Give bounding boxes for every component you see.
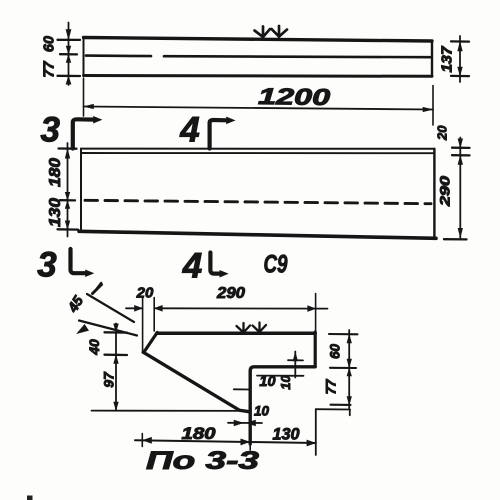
arrow 290 bottom [458,228,463,237]
dim line 1200 [84,107,434,110]
arrow 77 top [347,368,352,376]
tick at hook end [349,410,351,416]
tick 180 top [59,147,77,149]
svg-text:4: 4 [179,111,199,150]
ext line 20 left [142,298,144,353]
svg-text:97: 97 [101,371,117,388]
ext line 1200 right [432,86,434,126]
dim 20 left arrow [135,305,143,311]
tick 130 bottom [58,228,79,231]
tick 40 bottom [105,354,128,357]
cut mark 3 top [73,119,96,148]
small tick line mid [234,388,250,390]
hook leader line [79,321,137,336]
svg-text:10: 10 [278,375,293,390]
tick 60 bottom [330,367,356,369]
step dim arrow up [293,353,298,361]
arrow 97 top [114,355,119,363]
ext line 20 right [153,298,155,332]
dim line 290 section [154,307,327,309]
tick 20 bottom [452,154,470,156]
svg-text:20: 20 [435,125,450,141]
rect left edge [80,149,82,231]
svg-text:60: 60 [42,36,58,52]
svg-text:77: 77 [42,61,58,78]
step dim vline 10 [294,352,296,378]
ext line 1200 left [83,78,85,116]
ext line 290 right [315,294,317,332]
svg-text:4: 4 [182,247,202,286]
rect top line outer [81,148,434,150]
right dim line 137 [459,36,461,82]
arrow 180 left [143,437,152,443]
ext tick 180 left [141,434,143,447]
bar top edge [84,38,433,42]
svg-text:3: 3 [37,246,57,285]
bar top line [157,331,315,335]
arrow 130 right [307,440,316,446]
svg-text:По 3-3: По 3-3 [146,447,259,475]
svg-text:137: 137 [439,46,456,73]
rect top line inner [81,152,434,154]
star mark 1 section [237,323,251,333]
dim 20 left arrow line [126,307,143,309]
small dim 10 bottom arrow right [247,420,256,426]
ext line 130 right [315,409,317,455]
right dim line 20/290 [459,138,461,240]
tick 137 bottom [451,75,469,77]
svg-text:130: 130 [273,425,301,444]
bar step horizontal [250,367,315,444]
arrow 180 top [65,149,70,158]
svg-text:180: 180 [182,424,217,443]
tick 180/130 mid [60,199,75,201]
svg-text:10: 10 [254,404,270,419]
hook dim line 45 [87,294,134,322]
hook dim slash [93,285,102,294]
hook leader arrow [77,325,89,334]
arrow 290 left [155,305,163,311]
rect bottom edge [79,231,436,238]
dim line 60/77 [348,330,350,409]
small dim 10 bottom line [228,422,262,424]
tick 60 top [329,333,358,335]
svg-text:C9: C9 [264,251,288,279]
small dim 10 bottom arrow left [234,420,243,426]
arrow above mid tick [66,46,71,54]
arrow 40 top [114,324,119,332]
svg-text:290: 290 [216,285,245,302]
arrow 290 top [458,156,463,165]
speck bottom left [27,496,33,500]
svg-text:290: 290 [437,176,453,208]
cut mark 3 arrow [94,116,102,123]
arrow 1200 left [84,104,94,108]
tick mid [60,53,77,56]
cut mark 4 bottom arrow [220,270,228,277]
arrow 130 bottom [65,221,70,229]
svg-text:77: 77 [324,378,339,395]
step dim tick [288,359,303,361]
step sub line [257,375,304,377]
cut mark 3 bottom [71,249,86,273]
bar middle line seg2 [164,56,430,57]
cut mark 4 arrow [227,117,235,124]
bar right edge [314,332,317,366]
tick 20 top [452,147,470,149]
arrow 20 above [458,139,463,148]
bar right edge [431,41,433,76]
dim line 180/130 bottom [135,440,316,443]
tick 77 bottom [331,404,351,406]
svg-text:20: 20 [136,285,154,302]
tick 137 top [451,40,469,42]
arrow 60 bottom [347,359,352,367]
svg-text:60: 60 [328,344,343,360]
tick bottom [58,75,81,77]
arrow below mid tick [65,201,70,209]
dashed axis line [85,200,431,203]
arrow 60 top [347,335,352,343]
ext line 77 bottom hook [316,408,350,410]
arrow below mid tick [66,55,71,63]
arrow above mid tick [65,192,70,200]
tick 290 bottom [444,238,467,240]
dim line 40/97 [115,324,117,411]
star mark 1 [255,27,271,38]
bar left edge [83,38,85,76]
svg-text:45: 45 [64,293,86,316]
arrow 137 top [458,42,463,51]
bottom ext line long [92,410,248,412]
bar left bevel [144,332,158,352]
left dim line 60/77 [68,23,70,86]
cut mark 4 top [210,120,227,149]
star mark 2 section [253,323,267,333]
arrow below bottom tick [66,76,71,84]
bar long diagonal [143,352,250,412]
small slash near mark 3 bottom [97,283,101,289]
cut mark 4 bottom [210,253,221,274]
tick 40 top [105,331,128,334]
tick top [58,39,81,41]
svg-text:180: 180 [47,158,64,187]
rect right edge [433,149,435,238]
svg-text:10: 10 [259,374,275,390]
left dim line 180/130 [67,143,69,237]
arrow above top tick [66,30,71,40]
arrow 290 right [308,306,316,312]
svg-text:130: 130 [47,198,64,227]
arrow 97 bottom [114,402,119,410]
bar bottom edge [84,74,433,78]
arrow 77 bottom [347,397,352,405]
svg-text:1200: 1200 [258,83,331,110]
cut mark 3 bottom arrow [86,270,94,277]
bar middle line seg1 [86,54,151,57]
bar step ext tail [249,444,251,450]
arrow 1200 right [423,107,433,111]
arrow 180 right [241,439,250,445]
arrow 137 bottom [458,67,463,76]
star mark 2 [272,26,288,37]
svg-text:40: 40 [86,339,102,356]
svg-text:3: 3 [40,111,60,150]
